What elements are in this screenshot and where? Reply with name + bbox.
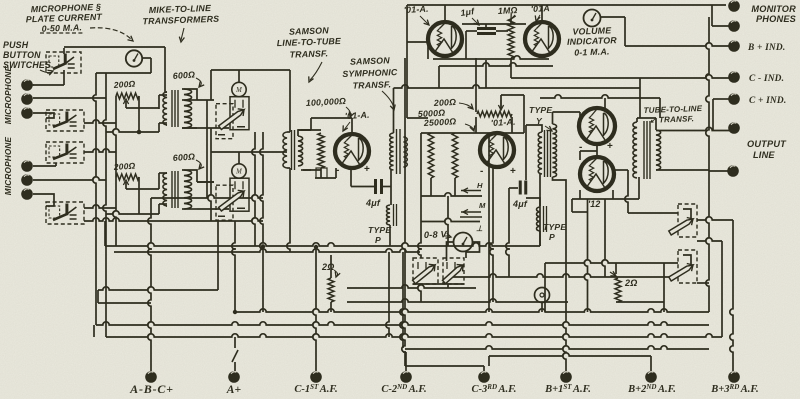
- potentiometer arrow R1: [123, 99, 128, 104]
- wire: [158, 123, 160, 132]
- wire: [211, 69, 290, 71]
- wire: [33, 97, 106, 99]
- wire: [444, 5, 446, 22]
- wire: [616, 301, 664, 303]
- wire: [541, 303, 543, 312]
- choke TYPE P L2: [537, 207, 540, 231]
- wire: [404, 166, 407, 168]
- wire: [552, 112, 554, 124]
- arrow push button: [40, 70, 52, 73]
- wire: [656, 127, 734, 130]
- wire: [33, 165, 56, 167]
- capacitor 1uf C3: [477, 29, 496, 34]
- wire: [721, 241, 723, 337]
- wire: [383, 186, 391, 188]
- wire: [298, 129, 321, 131]
- wire: [390, 170, 392, 205]
- wire: [98, 287, 218, 290]
- wire: [596, 144, 598, 157]
- wire: [166, 205, 167, 207]
- wire: [159, 172, 167, 174]
- plate-current meter M1: [126, 50, 142, 66]
- wire: [579, 151, 581, 160]
- wire: [96, 72, 151, 74]
- wire: [351, 186, 375, 188]
- wire: [159, 94, 167, 96]
- resistor 5000-ohm: [428, 133, 434, 178]
- wire: [232, 221, 235, 312]
- transformer T6 primary winding: [633, 122, 637, 178]
- terminal B+ indicator: [728, 40, 740, 52]
- transformer T4 secondary winding: [404, 137, 408, 167]
- wire: [638, 177, 640, 199]
- potentiometer arrow R2: [123, 180, 128, 185]
- wire: [347, 299, 568, 302]
- resistor 25000-ohm: [452, 133, 458, 178]
- wire: [126, 188, 159, 190]
- wire: [438, 66, 440, 88]
- wire: [330, 302, 332, 312]
- resistor 1-megohm R6: [508, 19, 514, 58]
- terminal B+2nd AF: [645, 371, 657, 383]
- resistor 200-ohm R2: [116, 174, 139, 180]
- wire: [208, 128, 211, 221]
- wire: [407, 41, 428, 43]
- push-button switch S3: [46, 142, 84, 163]
- wire: [730, 220, 733, 371]
- wire: [389, 225, 391, 246]
- resistor 2-ohm R4: [328, 278, 334, 302]
- wire: [579, 190, 581, 199]
- wire: [510, 58, 512, 78]
- jack relay J1: [232, 82, 246, 96]
- arrow 200 row: [459, 103, 472, 108]
- arrow 01A V6: [537, 15, 540, 20]
- wire: [511, 117, 513, 133]
- wire: [55, 163, 57, 166]
- transformer T4 core: [397, 129, 401, 174]
- output jack 1: [678, 204, 697, 237]
- wire: [636, 118, 638, 122]
- wire: [63, 70, 65, 85]
- wire: [488, 356, 490, 366]
- terminal microphone input 2c: [21, 188, 33, 200]
- wire: [697, 282, 709, 284]
- wire: [465, 31, 467, 59]
- wire: [526, 198, 540, 206]
- wire: [298, 130, 311, 136]
- terminal C- indicator: [728, 71, 740, 83]
- wire: [572, 198, 639, 200]
- terminal B+3rd AF: [728, 371, 740, 383]
- wire: [655, 118, 657, 130]
- wire: [639, 78, 641, 118]
- wire: [579, 112, 581, 118]
- switch contact H: [461, 190, 481, 192]
- wire: [126, 107, 159, 109]
- wire: [96, 322, 709, 325]
- wire: [445, 196, 448, 246]
- switch contact M: [461, 211, 481, 213]
- wire: [351, 118, 353, 134]
- terminal output line b: [727, 165, 739, 177]
- wire: [407, 4, 726, 6]
- wire: [386, 252, 389, 337]
- wire: [182, 170, 197, 182]
- wire: [421, 132, 524, 134]
- wire: [447, 242, 454, 261]
- wire: [106, 334, 722, 337]
- resistor 200-ohm R1: [116, 93, 139, 99]
- wire: [114, 249, 420, 252]
- wire: [289, 70, 291, 132]
- wire: [113, 96, 116, 246]
- junction dot: [261, 244, 265, 248]
- terminal output line a: [728, 122, 740, 134]
- wire: [656, 169, 709, 171]
- wire: [650, 356, 652, 371]
- terminal A+: [228, 371, 240, 383]
- wire: [93, 73, 96, 325]
- grid-leak resistor 100000-ohm R3: [318, 133, 324, 168]
- wire: [430, 178, 432, 196]
- wire: [158, 95, 160, 109]
- volume control resistor row: [477, 111, 512, 117]
- wire: [311, 117, 352, 119]
- capacitor 4uf C2: [520, 181, 526, 195]
- wire: [181, 88, 183, 90]
- wire: [33, 113, 54, 118]
- transformer T6 core: [644, 121, 650, 179]
- potentiometer arrow: [500, 100, 502, 108]
- wire: [217, 221, 219, 290]
- wire: [138, 177, 140, 214]
- arrow 1uf: [472, 18, 478, 24]
- wire: [489, 353, 651, 356]
- terminal microphone input 2b: [21, 174, 33, 186]
- wire: [403, 351, 406, 353]
- wire: [545, 260, 678, 263]
- wire: [404, 136, 407, 138]
- wire: [427, 42, 429, 59]
- battery switch dashed box 2: [443, 258, 464, 284]
- wire: [301, 129, 311, 131]
- triode tube V2 01-A: [480, 133, 514, 167]
- wire: [315, 177, 336, 179]
- transformer T5 core: [545, 130, 551, 177]
- wire: [483, 366, 485, 371]
- wire: [709, 170, 728, 172]
- transformer T1 core: [172, 90, 178, 127]
- wire: [485, 24, 487, 28]
- transformer T6 secondary winding: [656, 130, 661, 170]
- wire: [466, 242, 480, 258]
- wire: [706, 17, 709, 312]
- terminal microphone input 2a: [21, 160, 33, 172]
- jack small circle: [535, 288, 550, 303]
- wire: [234, 362, 236, 371]
- wire: [712, 99, 714, 131]
- wire: [125, 182, 127, 189]
- wire: [475, 58, 477, 112]
- wire: [148, 198, 151, 372]
- wire: [330, 255, 332, 278]
- wire: [232, 350, 238, 362]
- wire: [98, 302, 151, 304]
- battery switch dashed box 1: [413, 258, 438, 284]
- wire: [287, 131, 290, 133]
- wire: [553, 111, 581, 113]
- wire: [166, 91, 168, 93]
- wire: [310, 118, 312, 130]
- wire: [572, 211, 588, 213]
- wire: [33, 194, 54, 206]
- wire: [164, 47, 166, 92]
- wire: [33, 84, 64, 86]
- wire: [475, 117, 477, 133]
- wire: [628, 212, 678, 214]
- wire: [602, 199, 605, 277]
- triode tube V5 monitor 01-A: [428, 22, 462, 56]
- wire: [182, 89, 197, 100]
- wire: [350, 168, 352, 187]
- wire: [697, 217, 733, 220]
- wire: [335, 168, 337, 178]
- wire: [63, 48, 65, 54]
- wire: [138, 96, 140, 132]
- wire: [712, 25, 729, 27]
- wire: [421, 193, 482, 196]
- wire: [210, 70, 212, 100]
- wire: [394, 85, 641, 88]
- wire: [490, 167, 493, 302]
- arrow samson ltt: [310, 62, 322, 80]
- wire: [166, 124, 167, 126]
- wire: [182, 208, 197, 210]
- arrow plate current: [90, 28, 132, 40]
- wire: [287, 168, 290, 252]
- transformer T3 secondary winding: [298, 136, 303, 166]
- wire: [407, 117, 428, 119]
- wire: [206, 100, 208, 198]
- wire: [64, 46, 165, 48]
- wire: [466, 30, 477, 32]
- arrow mike-to-line: [181, 28, 184, 40]
- wire: [659, 98, 661, 118]
- wire: [509, 187, 518, 189]
- transformer T1 primary winding: [163, 92, 167, 125]
- transformer T5 primary winding: [538, 132, 542, 174]
- transformer T2 primary winding: [163, 173, 167, 206]
- arrow 0-8V: [444, 235, 450, 237]
- wire: [197, 181, 214, 183]
- wire: [624, 17, 626, 46]
- arrow symphonic: [382, 91, 394, 108]
- wire: [400, 252, 403, 348]
- wire: [159, 203, 167, 205]
- terminal microphone input 1a: [21, 79, 33, 91]
- wire: [614, 169, 628, 171]
- wire: [158, 204, 160, 214]
- wire: [84, 205, 116, 208]
- transformer T3 core: [292, 130, 295, 170]
- arrow 01-A V1: [344, 122, 350, 130]
- wire: [93, 325, 95, 337]
- triode tube V3 push-pull upper: [579, 108, 615, 144]
- wire: [234, 337, 236, 348]
- triode tube V4 push-pull lower: [580, 157, 614, 191]
- wire: [197, 99, 214, 101]
- wire: [197, 208, 229, 210]
- wire: [287, 167, 290, 169]
- wire: [540, 95, 660, 98]
- terminal C+ indicator: [728, 93, 740, 105]
- wire: [151, 195, 263, 198]
- wire: [252, 132, 255, 246]
- wire: [544, 263, 546, 312]
- wire: [238, 152, 240, 165]
- wire: [433, 56, 549, 59]
- wire: [637, 117, 656, 119]
- push-button switch S2: [46, 110, 84, 131]
- arrow 25000: [465, 124, 474, 130]
- wire: [97, 290, 99, 303]
- triode tube V6 monitor 01-A: [525, 22, 559, 56]
- wire: [303, 169, 321, 171]
- wire: [182, 127, 197, 129]
- jack relay J2: [232, 164, 246, 178]
- wire: [103, 73, 106, 337]
- wire: [313, 246, 316, 371]
- wire: [485, 60, 487, 88]
- wire: [405, 352, 407, 371]
- junction dot: [233, 310, 237, 314]
- wire: [405, 346, 709, 349]
- wire: [571, 199, 573, 212]
- underline plate current: [40, 32, 84, 34]
- wire: [197, 181, 214, 183]
- wire: [84, 120, 116, 123]
- wire: [104, 221, 106, 246]
- wire: [421, 218, 480, 221]
- resistor 2-ohm R5: [615, 278, 621, 302]
- terminal A-B-C+: [145, 371, 157, 383]
- transformer T5 secondary winding: [553, 124, 557, 177]
- transformer T1 secondary winding: [184, 89, 192, 128]
- terminal C-2nd AF: [400, 371, 412, 383]
- junction dot: [137, 130, 142, 135]
- terminal C-1st AF: [310, 371, 322, 383]
- wire: [413, 283, 464, 285]
- resistor box R3: [316, 168, 327, 178]
- wire: [526, 125, 542, 132]
- wire: [500, 95, 502, 109]
- wire: [697, 238, 722, 241]
- wire: [541, 5, 543, 22]
- wire: [663, 263, 665, 312]
- wire: [439, 63, 553, 66]
- wire: [125, 101, 127, 108]
- arrow 600 ohm 2: [196, 160, 201, 168]
- wire: [106, 129, 159, 132]
- wire: [166, 172, 167, 174]
- wire: [33, 177, 106, 180]
- wire: [158, 173, 160, 189]
- arrow 01-A V5: [420, 16, 428, 24]
- wire: [105, 243, 540, 246]
- wire: [563, 262, 566, 371]
- wire: [580, 150, 597, 152]
- terminal B+1st AF: [560, 371, 572, 383]
- terminal monitor phones a: [728, 0, 740, 12]
- wire: [238, 70, 240, 83]
- wire: [418, 284, 421, 302]
- transformer T2 secondary winding: [184, 170, 192, 209]
- wire: [260, 132, 263, 312]
- junction dot: [314, 245, 318, 249]
- wire: [539, 231, 541, 246]
- wire: [106, 211, 159, 214]
- wire: [488, 133, 490, 312]
- wire: [406, 5, 408, 118]
- wire: [150, 58, 152, 73]
- wire: [506, 188, 509, 277]
- wire: [211, 151, 287, 153]
- wire: [539, 174, 541, 246]
- wire: [553, 177, 567, 262]
- wire: [625, 43, 729, 46]
- wire: [159, 122, 167, 124]
- wire: [600, 16, 625, 18]
- wire: [612, 190, 614, 199]
- potentiometer arrow R5: [610, 272, 616, 276]
- volume indicator meter M3: [584, 10, 601, 27]
- wire: [182, 127, 197, 129]
- terminal C-3rd AF: [478, 371, 490, 383]
- wire: [496, 30, 508, 32]
- wire: [713, 98, 729, 100]
- wire: [418, 133, 421, 258]
- arrow 100000: [346, 107, 351, 116]
- transformer T4 primary winding: [390, 133, 394, 170]
- transformer T3 primary winding: [283, 132, 287, 168]
- wire: [84, 149, 116, 152]
- output jack 2: [678, 250, 697, 283]
- wire: [584, 199, 587, 312]
- wire: [166, 124, 168, 126]
- arrow 1Mohm: [512, 15, 515, 18]
- wire: [454, 178, 456, 196]
- wire: [405, 365, 484, 367]
- wire: [625, 170, 628, 213]
- wire: [711, 5, 713, 26]
- terminal microphone input 1b: [21, 93, 33, 105]
- wire: [510, 19, 512, 24]
- capacitor 4uf C1: [376, 179, 382, 194]
- wire: [320, 168, 322, 178]
- transformer T2 core: [172, 171, 178, 208]
- wire: [142, 57, 151, 59]
- switch contact M2: [460, 216, 482, 218]
- triode tube V1 01-A: [335, 134, 369, 168]
- paper texture overlay: [0, 0, 1, 1]
- wire: [615, 263, 617, 274]
- wire: [197, 127, 229, 129]
- choke TYPE P L1: [387, 205, 390, 225]
- wire: [525, 125, 527, 180]
- push-button switch S4: [46, 202, 84, 224]
- wire: [402, 58, 405, 366]
